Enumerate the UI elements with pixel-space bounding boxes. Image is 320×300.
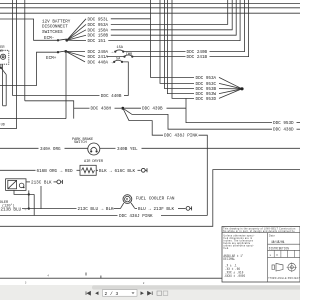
ground relay	[57, 180, 61, 184]
svg-text:DDC 241B: DDC 241B	[187, 55, 208, 60]
wire 616B ORG	[0, 169, 36, 171]
svg-text:DDC 440A →: DDC 440A →	[88, 61, 114, 66]
wire DDC 439B	[125, 107, 142, 109]
wire fan to DDC 241A	[66, 51, 85, 56]
park brake switch	[88, 143, 100, 155]
svg-text:BLK → 616C BLK: BLK → 616C BLK	[99, 169, 136, 174]
svg-text:DDC 439B: DDC 439B	[142, 107, 163, 112]
svg-text:ECM-: ECM-	[44, 36, 54, 41]
nav last page button	[148, 291, 153, 295]
wire 616C BLK	[96, 169, 98, 171]
svg-text:No whole or in part, of design: No whole or in part, of design and detai…	[223, 230, 295, 233]
wire 213C BLK	[26, 181, 30, 183]
fuse F1 15A	[114, 51, 116, 53]
TOOLBAR	[0, 285, 302, 300]
svg-text:213B BLU →: 213B BLU →	[1, 207, 27, 212]
svg-text:340B YEL: 340B YEL	[117, 147, 138, 152]
wire fan to DDC 150B	[67, 35, 86, 40]
wire DDC 241B	[132, 56, 185, 58]
wire DDC 438J lower	[0, 215, 118, 217]
fuel cooler fan motor M	[120, 203, 123, 209]
wire DDC 438H feed	[25, 101, 74, 119]
node 953 junction	[240, 87, 243, 90]
svg-text:DDC 953A: DDC 953A	[88, 23, 109, 28]
park brake feed wire 340A ORG	[0, 147, 39, 149]
wire DDC 953D branch	[172, 0, 194, 98]
wire bus line 3	[0, 12, 300, 14]
node ECM+ fanout junction	[64, 50, 67, 53]
wire DDC 440B	[13, 95, 100, 97]
node ECM+ switch terminal	[57, 51, 59, 53]
svg-text:DDC 440B: DDC 440B	[101, 94, 122, 99]
node 438 junction	[121, 107, 124, 110]
svg-text:DDC 151: DDC 151	[88, 39, 106, 44]
wire 213B BLU to relay	[28, 194, 30, 208]
wire DDC 438H	[74, 107, 90, 109]
svg-text:FUEL COOLER FAN: FUEL COOLER FAN	[136, 197, 175, 202]
svg-text:340A ORG: 340A ORG	[40, 147, 61, 152]
wire DDC 953D to right edge	[186, 98, 272, 122]
wire DDC 440B drop	[122, 62, 128, 96]
nav prev button	[95, 291, 98, 295]
svg-text:10/15/01: 10/15/01	[271, 240, 284, 245]
wire DDC 240B	[123, 51, 185, 53]
fuel cooler relay box	[6, 179, 26, 191]
wire DDC 953C branch	[160, 0, 194, 83]
svg-text:Date: Date	[269, 235, 275, 238]
ground fan	[186, 207, 190, 211]
svg-text:DISCONNECT: DISCONNECT	[42, 25, 68, 30]
wire right loop to edge	[0, 170, 300, 227]
12V battery disconnect switch blade (ECM-)	[58, 39, 67, 40]
svg-text:213C BLK: 213C BLK	[31, 181, 52, 186]
svg-text:DDC 953D: DDC 953D	[273, 121, 294, 126]
svg-text:616B ORG → RED: 616B ORG → RED	[37, 169, 74, 174]
svg-text:BLU → 213F BLK: BLU → 213F BLK	[138, 207, 175, 212]
svg-text:DDC 241A: DDC 241A	[88, 55, 109, 60]
wire ECM+ feed	[0, 52, 57, 85]
svg-text:SWITCHES: SWITCHES	[42, 30, 63, 35]
relay contact	[19, 183, 24, 188]
node ECM- switch terminal	[57, 39, 59, 41]
nav next button	[141, 291, 144, 295]
svg-text:DDC 438J PINK: DDC 438J PINK	[119, 214, 153, 219]
ground stud box UD	[0, 119, 16, 129]
wire ground stud link	[16, 118, 66, 120]
relay coil	[8, 180, 17, 188]
wire DDC 438D	[123, 108, 272, 129]
svg-text:M: M	[126, 199, 128, 203]
wire ECM- feed	[0, 19, 57, 40]
svg-text:DDC 953L: DDC 953L	[88, 17, 109, 22]
wire 213C BLU	[41, 186, 77, 209]
wire 340B YEL	[100, 147, 116, 149]
wire 213F BLK	[131, 203, 135, 208]
nav first page button	[86, 291, 91, 295]
wire bus line 1	[0, 3, 300, 5]
svg-text:DDC 438H: DDC 438H	[91, 107, 112, 112]
svg-text:213C BLU → BLK: 213C BLU → BLK	[78, 207, 115, 212]
svg-text:TMR: TMR	[126, 53, 133, 57]
svg-text:THIRD ANGLE PROJECTION: THIRD ANGLE PROJECTION	[268, 277, 300, 280]
12V battery disconnect switch blade (ECM+)	[58, 51, 66, 52]
svg-text:15A: 15A	[117, 46, 124, 50]
svg-text:fied.: fied.	[224, 248, 230, 250]
wire ECM+ down branch	[65, 51, 67, 118]
air dryer heater	[80, 165, 96, 175]
wire bus line 2	[0, 7, 300, 9]
third angle projection symbol	[272, 263, 283, 271]
node ECM- fanout junction	[65, 39, 68, 42]
svg-text:DECIMAL: DECIMAL	[224, 257, 236, 262]
wire DDC 953A branch	[151, 0, 195, 77]
wire relay coil pins	[14, 190, 34, 194]
wire fan to DDC 151	[67, 39, 86, 41]
wire DDC 953B branch	[165, 0, 194, 89]
TITLE BLOCK	[222, 227, 306, 283]
wire DDC 953W branch	[167, 0, 194, 94]
svg-text:ECM+: ECM+	[46, 56, 57, 61]
wire DDC 438J upper	[123, 108, 163, 135]
svg-text:DDC 953A: DDC 953A	[196, 76, 217, 81]
wire relay to DDC 438J	[33, 194, 35, 215]
page number field	[103, 290, 138, 297]
ground air dryer	[141, 168, 145, 172]
fuse F3 5A	[113, 61, 115, 63]
svg-text:12V BATTERY: 12V BATTERY	[42, 19, 71, 24]
wire starter leads	[2, 64, 4, 106]
wire fan to DDC 440A	[66, 51, 85, 62]
svg-text:DDC 438D: DDC 438D	[273, 128, 294, 133]
svg-text:DDC 953D: DDC 953D	[196, 97, 217, 102]
wire left bus vertical B	[15, 0, 17, 119]
wire fan to DDC 953A	[67, 24, 86, 40]
svg-text:DDC 150A: DDC 150A	[88, 28, 109, 33]
wire fan to DDC 953L	[67, 19, 86, 40]
title block frame	[222, 227, 300, 283]
fuse F2 TMR	[107, 56, 125, 58]
toolbar background	[0, 285, 300, 300]
wire fan to DDC 240A	[66, 50, 85, 52]
svg-text:DDC 150B: DDC 150B	[88, 34, 109, 39]
svg-text:2 / 3: 2 / 3	[105, 291, 119, 297]
scrollbar thumb	[92, 285, 302, 289]
wire left bus vertical A	[12, 0, 14, 96]
svg-text:UD: UD	[1, 124, 5, 128]
wire fan to DDC 150A	[67, 30, 86, 40]
svg-text:AIR DRYER: AIR DRYER	[84, 160, 104, 164]
svg-text:DDC 438J PINK: DDC 438J PINK	[164, 134, 198, 139]
svg-text:SWITCH: SWITCH	[74, 141, 87, 145]
sheet bottom border	[0, 277, 222, 279]
wire left bus vertical C	[24, 0, 26, 101]
toolbar extra icons	[157, 291, 162, 295]
svg-text:.XXXX ± .0005: .XXXX ± .0005	[224, 274, 246, 278]
